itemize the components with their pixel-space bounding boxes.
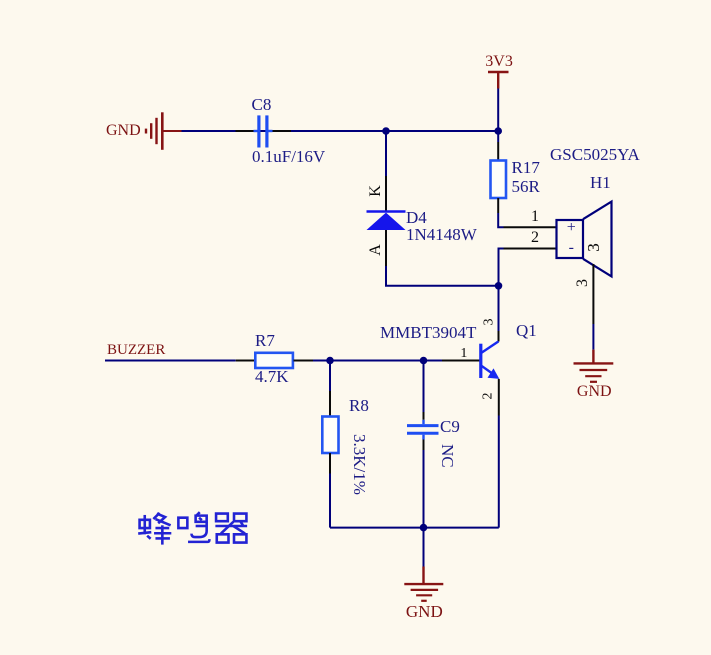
pin name A [368, 245, 384, 257]
wire down to C9 [423, 361, 425, 425]
wire R7 to Q1 base [313, 360, 480, 362]
resistor R7 [236, 353, 313, 368]
pin number 3 H1 inner [585, 244, 602, 253]
wire down to R8 [329, 361, 331, 417]
net label GND left [106, 123, 141, 139]
ground symbol bottom [404, 584, 443, 601]
pin number 1 Q1 base [460, 347, 467, 361]
net label BUZZER [107, 343, 165, 358]
value NC [439, 444, 456, 468]
wire R17 to H1 pin 1 [498, 198, 556, 227]
designator Q1 [516, 322, 537, 339]
net label GND bottom [406, 603, 443, 620]
value GSC5025YA [550, 146, 640, 163]
pin plus H1 [567, 220, 576, 236]
wire node down to D4 cathode [385, 131, 387, 176]
net label 3V3 [485, 54, 513, 70]
wire R8 down to bottom rail [329, 453, 331, 528]
designator R7 [255, 332, 275, 349]
wire node down to Q1 collector [498, 286, 500, 342]
designator C8 [252, 96, 272, 113]
value 3.3K/1% [351, 434, 368, 495]
node junction top-right (3V3/R17) [494, 127, 502, 135]
node junction collector/D4/H1 [495, 282, 503, 290]
designator H1 [590, 174, 611, 191]
pin number 3 Q1 collector [482, 318, 496, 325]
wire 3V3 down to node [497, 89, 499, 132]
pin number 2 Q1 emitter [482, 393, 496, 400]
net label GND under H1 [577, 384, 612, 400]
wire BUZZER rail [105, 360, 236, 362]
pin number 2 H1 [531, 230, 539, 246]
wire D4 anode down and right to collector node [386, 266, 499, 286]
value 56R [512, 178, 540, 195]
wire H1 pin 3 down to GND [592, 264, 594, 350]
resistor R8 [322, 417, 338, 454]
wire C9 down to bottom rail [422, 435, 424, 528]
wire down to bottom ground [423, 528, 425, 583]
power 3V3 symbol [488, 72, 509, 89]
pin minus H1 [569, 240, 574, 256]
ground symbol left (earth bars) [146, 112, 182, 150]
ground symbol under H1 [574, 350, 614, 382]
pin name K [368, 185, 384, 197]
node junction R8 tap [326, 357, 334, 365]
value 1N4148W [406, 226, 477, 243]
node junction top-left (D4 tap) [382, 127, 390, 135]
title text 蜂鸣器 (hand drawn strokes) [138, 512, 247, 544]
value 0.1uF/16V [252, 148, 325, 165]
designator D4 [406, 209, 427, 226]
designator R17 [512, 159, 540, 176]
pin number 1 H1 [531, 209, 539, 225]
transistor Q1 MMBT3904T [481, 341, 500, 379]
wire node down to R17 [497, 131, 499, 161]
capacitor C8 [236, 115, 292, 147]
resistor R17 [491, 161, 507, 199]
capacitor C9 [407, 426, 439, 434]
wire Q1 emitter down [498, 379, 500, 528]
wire top rail GND to 3V3 node [181, 130, 498, 132]
node junction bottom GND tap [420, 524, 428, 532]
designator C9 [440, 418, 460, 435]
value 4.7K [255, 368, 289, 385]
designator R8 [349, 397, 369, 414]
diode D4 1N4148W [367, 176, 406, 266]
speaker H1 body [557, 202, 612, 277]
value MMBT3904T [380, 324, 476, 341]
wire bottom rail [330, 527, 499, 529]
wire H1 pin 2 to collector node [499, 249, 557, 286]
pin number 3 H1 outer [575, 279, 591, 287]
node junction C9/base tap [420, 357, 428, 365]
